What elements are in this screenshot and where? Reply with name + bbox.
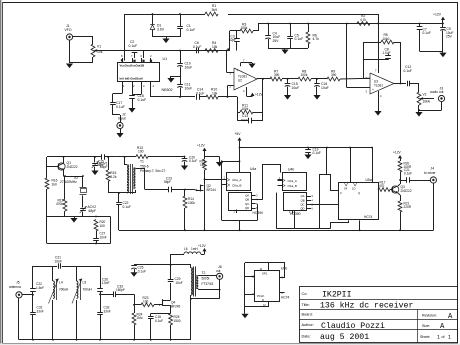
resistor R8 (298, 69, 311, 81)
resistor R6 (306, 24, 319, 49)
capacitor C26 (shunt right) (97, 266, 109, 294)
U4b ground loop (277, 174, 331, 229)
capacitor C21 (J4 coupling) (400, 168, 430, 183)
svg-text:10k: 10k (212, 45, 218, 49)
capacitor C12 (404, 65, 420, 86)
capacitor C5 (287, 24, 303, 49)
svg-text:1k0: 1k0 (52, 182, 57, 186)
title block Title field (302, 301, 414, 311)
capacitor C20 (181, 155, 197, 170)
svg-text:T50-6: T50-6 (140, 164, 149, 168)
svg-text:A: A (440, 323, 445, 331)
svg-text:4: 4 (380, 94, 382, 98)
svg-text:25V: 25V (273, 39, 280, 43)
svg-text:+5V: +5V (235, 132, 242, 136)
capacitor C4 (265, 24, 280, 49)
svg-text:S4: S4 (344, 186, 348, 190)
svg-text:50t/5t: 50t/5t (202, 277, 210, 281)
svg-text:FT37/43: FT37/43 (202, 282, 214, 286)
svg-text:T1: T1 (140, 160, 144, 164)
svg-text:10nF: 10nF (100, 235, 107, 239)
wire C7 C9 ground bar (420, 51, 444, 53)
svg-text:0.1uF: 0.1uF (123, 205, 131, 209)
transformer T2 primary (191, 265, 194, 299)
title block Author field (302, 321, 385, 331)
svg-text:0.1uF: 0.1uF (116, 105, 125, 109)
transformer T1 primary (125, 157, 130, 193)
node C16f junction (316, 78, 318, 80)
svg-text:BF244: BF244 (207, 188, 217, 192)
wire osc pin 6 riser (143, 51, 145, 59)
ground at V2 (415, 112, 422, 117)
capacitor C15q (148, 313, 163, 339)
capacitor C24 (T1 bottom) (116, 192, 131, 230)
svg-text:470: 470 (379, 184, 385, 188)
label HC74 b (281, 296, 290, 300)
supply +12V Q4 (198, 244, 207, 255)
wire osc collector rail (47, 156, 116, 158)
node D1 junction (152, 13, 154, 15)
svg-text:8.2k: 8.2k (110, 175, 117, 179)
svg-text:1.5nF: 1.5nF (102, 281, 110, 285)
title block Size field (422, 323, 445, 331)
resistor R15 (106, 156, 117, 193)
supply +12V mixer (197, 143, 207, 156)
resistor R13 (137, 146, 144, 154)
U5 clock wedges (340, 183, 360, 195)
node U3 output (400, 83, 402, 85)
divider U4a (HC390) (222, 167, 263, 215)
potentiometer V2 (417, 92, 434, 105)
capacitor C1 (177, 14, 195, 37)
svg-text:0.1uF: 0.1uF (193, 45, 201, 49)
U5 Vcc riser (349, 147, 373, 183)
resistor R1 (205, 4, 218, 16)
node U2 output (262, 78, 264, 80)
wire R10 to U2 inverting node (218, 96, 237, 98)
wire T1 bottom bar (108, 192, 135, 194)
transformer T1 secondary (133, 168, 138, 193)
svg-text:0.1uF: 0.1uF (313, 151, 321, 155)
svg-text:3: 3 (256, 195, 258, 198)
svg-text:C: C (340, 191, 342, 195)
svg-text:-: - (237, 86, 238, 90)
svg-text:IK2PII: IK2PII (322, 291, 352, 300)
U3 bottom pin ground (374, 91, 382, 116)
mixer U1 box (118, 57, 173, 92)
svg-text:700uH: 700uH (59, 287, 69, 291)
svg-text:100: 100 (138, 150, 144, 154)
capacitor C3 (229, 31, 240, 51)
capacitor C7 (417, 23, 431, 52)
svg-text:2N2222: 2N2222 (67, 165, 78, 169)
svg-text:0.1uF: 0.1uF (423, 31, 431, 35)
node R6 rail junction (307, 23, 309, 25)
svg-text:33nF: 33nF (104, 309, 111, 313)
ground at C7/C9 (439, 51, 446, 57)
svg-text:audio out: audio out (430, 90, 444, 94)
svg-text:10uF: 10uF (292, 86, 300, 90)
svg-text:3: 3 (312, 195, 314, 198)
svg-text:1: 1 (437, 335, 440, 341)
svg-text:4: 4 (243, 89, 245, 93)
wire U3 output (394, 83, 406, 85)
resistor R17 (378, 180, 392, 191)
capacitor C25 (130, 265, 146, 277)
connector J4 (to mixer) (424, 167, 437, 183)
wire T2 sec top to J6 (198, 275, 216, 277)
wire filter top bar (33, 266, 100, 268)
wire U4a QD to U4b (251, 164, 280, 200)
svg-text:of: of (442, 335, 446, 339)
wire +5V clock drop (239, 147, 241, 172)
svg-text:27.100MHz: 27.100MHz (60, 180, 77, 184)
resistor R21 (Q3 emitter) (398, 201, 412, 231)
wire Q3 collector (398, 180, 401, 186)
capacitor C15 (filter) (284, 79, 299, 100)
svg-text:Title:: Title: (302, 303, 310, 307)
svg-text:QC: QC (245, 202, 249, 206)
transistor Q3 (392, 185, 412, 193)
svg-text:CKa_B: CKa_B (288, 184, 297, 188)
svg-text:7: 7 (375, 69, 377, 73)
svg-text:0.1uF: 0.1uF (129, 44, 138, 48)
svg-text:0.1uF: 0.1uF (189, 159, 197, 163)
svg-text:68pF: 68pF (89, 209, 96, 213)
wire U2 inverting input (228, 86, 235, 98)
trimmer ACV1 (91, 156, 107, 175)
wire Q3 emitter (398, 193, 401, 201)
U1 internal bottom labels (120, 77, 144, 81)
capacitor C19 (304, 147, 320, 160)
capacitor C14 (180, 88, 206, 100)
svg-text:CKa_A: CKa_A (288, 179, 297, 183)
capacitor C8 (383, 47, 391, 60)
fet Q4 (159, 299, 181, 308)
resistor R4 (205, 41, 218, 52)
svg-text:100k: 100k (241, 26, 248, 30)
svg-text:+12V: +12V (197, 143, 206, 147)
svg-text:10k0: 10k0 (383, 37, 390, 41)
svg-text:CKa_A: CKa_A (232, 178, 241, 182)
resistor R23 (134, 296, 159, 307)
svg-text:1Mo: 1Mo (137, 316, 143, 320)
wire top supply rail (125, 14, 379, 16)
transistor Q1 (58, 161, 78, 170)
svg-text:3: 3 (143, 84, 145, 88)
title block frame (299, 287, 457, 344)
svg-text:NE602: NE602 (162, 88, 173, 92)
svg-text:100k: 100k (188, 201, 195, 205)
svg-text:0.1uF: 0.1uF (187, 28, 196, 32)
wire R9 to U3 (340, 77, 370, 80)
svg-text:100k: 100k (301, 73, 308, 77)
title block Revision field (422, 313, 453, 321)
flip-flop U5b box (252, 268, 284, 307)
svg-text:4.7k: 4.7k (313, 37, 320, 41)
ground at C18 (128, 108, 135, 113)
transformer T1 core (131, 164, 133, 194)
wire mixer bottom bus (119, 229, 433, 231)
inductor L6 (184, 247, 201, 254)
pin 7 label U3 (375, 69, 377, 73)
resistor R24 (132, 305, 143, 340)
svg-text:U1: U1 (163, 57, 168, 61)
wire Q4 drain (166, 283, 170, 301)
capacitor C21f (series) (55, 256, 62, 269)
wire U5 bottom stubs (330, 220, 361, 231)
wire source bar (151, 313, 171, 315)
svg-text:HC390: HC390 (290, 212, 301, 216)
svg-text:2: 2 (133, 84, 135, 88)
wire U3 noninverting feed (347, 24, 371, 88)
node C15f junction (287, 78, 289, 80)
svg-text:antenna: antenna (9, 285, 21, 289)
svg-text:QD: QD (245, 206, 249, 210)
trimmer ACV2 (80, 205, 97, 216)
U1 internal top labels (120, 64, 145, 68)
wire J5 ground drop (18, 298, 20, 340)
svg-text:1k0: 1k0 (200, 163, 205, 167)
svg-text:0.1uF: 0.1uF (155, 319, 163, 323)
capacitor C29 (168, 277, 183, 285)
svg-text:4.7k: 4.7k (360, 18, 366, 22)
wire C17 to J2 (113, 115, 121, 123)
wire U4b QD out (307, 204, 339, 206)
svg-text:-: - (372, 77, 373, 81)
svg-text:+: + (237, 68, 239, 72)
capacitor C26 osc label (97, 154, 105, 167)
ground tap between C10 C11 (167, 76, 180, 83)
svg-text:10uF: 10uF (321, 86, 329, 90)
svg-text:BF245: BF245 (171, 304, 181, 308)
node U2 inverting (227, 96, 229, 98)
U4b Vcc riser (320, 147, 328, 175)
resistor R20 (osc out) (94, 216, 105, 231)
connector J6 (out) (216, 265, 223, 279)
svg-text:10nF: 10nF (55, 259, 62, 263)
svg-text:QA: QA (245, 194, 249, 198)
wire osc loop left (46, 217, 48, 244)
wire R8-R9 (311, 78, 327, 80)
svg-text:4: 4 (153, 84, 155, 88)
wire bottom ground bus (19, 299, 191, 341)
svg-text:QB: QB (301, 198, 305, 202)
svg-text:2: 2 (150, 54, 152, 58)
svg-text:Primary:7, Sec:27: Primary:7, Sec:27 (140, 169, 165, 173)
svg-text:700uH: 700uH (83, 287, 93, 291)
resistor R18 (mixer) (200, 159, 207, 185)
resistor R19 (osc) (56, 175, 67, 216)
svg-text:56pF: 56pF (97, 163, 104, 167)
resistor R10 (206, 88, 218, 99)
svg-text:390: 390 (274, 73, 280, 77)
connector J2 (Input) (117, 113, 126, 129)
svg-text:0.1uF: 0.1uF (138, 269, 146, 273)
U2 V- pin to +12V (243, 87, 264, 97)
connector J5 (antenna) (9, 281, 22, 298)
svg-text:Author:: Author: (302, 323, 314, 327)
svg-text:1.0uF: 1.0uF (383, 51, 391, 55)
wire Q1 emitter (64, 170, 84, 177)
U1 top pins (121, 54, 152, 62)
wire Q2 source (204, 191, 206, 231)
title block Co field (302, 291, 352, 300)
feedback resistor R11 (237, 79, 263, 114)
resistor R2 (on +12V rail) (357, 14, 370, 25)
capacitor C18 (129, 90, 146, 108)
svg-text:3.6V: 3.6V (157, 28, 165, 32)
flip-flop U5 box (HC74) (339, 183, 379, 220)
svg-text:Co:: Co: (302, 292, 308, 296)
node V2 bottom (418, 109, 420, 111)
fet Q2 (196, 184, 217, 192)
wire bias bottom bar (268, 48, 308, 50)
wire RFC feed (171, 254, 184, 256)
ground at bias network (281, 50, 288, 55)
node R23/R24 (133, 304, 135, 306)
capacitor C9 (440, 23, 453, 52)
transformer T2 core (194, 267, 196, 297)
capacitor C2 (129, 40, 138, 58)
svg-text:390: 390 (331, 73, 337, 77)
ground at oscillator (70, 217, 77, 223)
svg-text:U4b: U4b (288, 168, 294, 172)
svg-text:0.1uF: 0.1uF (138, 98, 147, 102)
svg-text:Board:: Board: (302, 313, 313, 317)
wire +5V rail (240, 147, 373, 149)
svg-text:out: out (216, 269, 221, 273)
svg-text:SP1: SP1 (262, 272, 268, 276)
wire osc left feedback (46, 157, 48, 167)
wire U4a to U4b clock (278, 179, 283, 181)
svg-text:6: 6 (141, 54, 143, 58)
node filter out (99, 293, 101, 295)
label U5a (366, 178, 372, 182)
svg-text:10k: 10k (212, 91, 218, 95)
wire R4 to bias node (218, 48, 230, 50)
svg-text:L4: L4 (59, 281, 63, 285)
svg-text:+12V: +12V (198, 244, 207, 248)
svg-text:1D: 1D (352, 186, 355, 190)
wire U2 output (257, 78, 270, 80)
U4a ground loop (222, 161, 258, 220)
U5b tie wires (245, 263, 286, 314)
supply +12V Q3 (393, 150, 402, 161)
node C4 rail junction (267, 23, 269, 25)
U1 bottom pins (123, 81, 155, 90)
svg-text:4: 4 (312, 199, 314, 202)
potentiometer V1 (91, 44, 103, 57)
inductor L4 (49, 266, 70, 340)
wire osc loop right (110, 217, 112, 244)
svg-text:136 kHz dc receiver: 136 kHz dc receiver (320, 301, 413, 311)
wire J1 to V1 (73, 37, 93, 45)
wire D1 C1 ground bar (153, 37, 181, 39)
svg-text:QC: QC (300, 203, 304, 207)
svg-text:33nF: 33nF (37, 309, 44, 313)
label C10 (185, 61, 193, 69)
wire Gnd pin jog (132, 90, 142, 95)
wire osc output riser (109, 156, 111, 158)
resistor R5 (364, 33, 401, 83)
svg-text:U2: U2 (238, 79, 242, 83)
wire OutA down (151, 90, 181, 97)
svg-text:100: 100 (100, 224, 106, 228)
wire C12 to V2 (418, 84, 420, 93)
label U5b (281, 267, 287, 271)
resistor R14 (183, 190, 195, 231)
svg-text:3: 3 (366, 89, 368, 93)
capacitor C27 (93, 231, 107, 244)
svg-text:HC74: HC74 (364, 215, 373, 219)
capacitor C23 (164, 176, 196, 192)
wire R7-R8 (282, 78, 298, 80)
title block Board field (302, 313, 313, 317)
wire T1 secondary to gate (138, 168, 169, 190)
label T2 (202, 271, 214, 286)
svg-text:U5a: U5a (366, 178, 372, 182)
U4a bottom pin to bus (237, 210, 241, 232)
svg-text:V1: V1 (97, 45, 101, 49)
svg-text:25V: 25V (446, 35, 453, 39)
node U3 + feed (346, 23, 348, 25)
capacitor C17 (110, 101, 124, 115)
svg-text:VFO: VFO (65, 28, 72, 32)
zener D1 (150, 14, 164, 37)
wire +5V jog (221, 160, 240, 162)
svg-text:0.1uF: 0.1uF (196, 91, 204, 95)
divider U4b (HC390) (278, 168, 314, 216)
svg-text:8: 8 (121, 54, 123, 58)
node Q3 collector feed (399, 179, 401, 181)
wire carry to HC74 clock (320, 174, 338, 191)
wire filter mid out (100, 294, 113, 296)
svg-text:10kA: 10kA (423, 100, 431, 104)
resistor R3 (230, 22, 259, 33)
op-amp U2 (230, 68, 257, 90)
resistor R7 (270, 69, 282, 81)
svg-text:0.1uF: 0.1uF (404, 69, 412, 73)
svg-text:Size:: Size: (422, 324, 430, 328)
svg-text:Sheet:: Sheet: (420, 335, 430, 339)
wire J4 ground drop (433, 183, 435, 230)
node OutA/C11 (179, 96, 181, 98)
svg-text:1.5nF: 1.5nF (36, 286, 44, 290)
wire Q4 source (166, 305, 170, 313)
wire bias R3 riser (229, 31, 231, 51)
wire Q1 base (47, 166, 59, 168)
svg-text:1: 1 (123, 84, 125, 88)
wire R13 line (116, 157, 127, 166)
title block Date field (302, 333, 370, 342)
node C10 top junction (179, 50, 181, 52)
label T1 (140, 160, 165, 174)
svg-text:L5: L5 (83, 281, 87, 285)
wire Q4 drain supply (170, 254, 172, 279)
wire osc bottom bar (47, 216, 111, 218)
title block Sheet field (420, 335, 451, 341)
svg-text:3k9: 3k9 (212, 8, 218, 12)
inductor L5 (72, 266, 93, 340)
capacitor C10 (IF coupling) (177, 51, 183, 77)
power +5V (235, 132, 242, 147)
wire J3 ground loop (419, 102, 442, 112)
wire U3 feedback tap (364, 42, 389, 79)
resistor R9 (327, 69, 340, 81)
capacitor C6 (188, 41, 205, 53)
svg-text:CKa_B: CKa_B (232, 183, 241, 187)
